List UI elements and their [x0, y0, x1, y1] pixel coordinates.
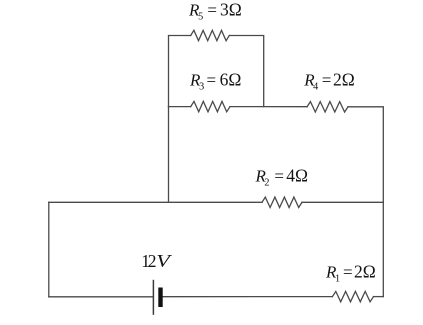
wire left rail down to bottom	[48, 202, 50, 296]
svg-text:R4=2Ω: R4=2Ω	[303, 70, 354, 93]
resistor R3	[191, 101, 230, 111]
resistor R5	[191, 30, 230, 40]
svg-text:R5=3Ω: R5=3Ω	[188, 0, 242, 22]
resistor R4	[307, 102, 348, 112]
wire R4 right lead and right vertical rail	[348, 107, 383, 297]
battery V1 short thick plate	[158, 288, 162, 308]
wire left vertical from R3 node down to R2 wire	[168, 107, 170, 203]
wire R1 right lead to right rail corner	[374, 296, 384, 298]
wire R2 right lead to right rail	[302, 201, 383, 203]
wire top-right of top loop	[229, 36, 263, 107]
svg-text:R2=4Ω: R2=4Ω	[255, 166, 308, 189]
wire battery to R1	[163, 296, 333, 298]
svg-text:R1=2Ω: R1=2Ω	[325, 262, 376, 285]
wire R3 left lead	[169, 106, 191, 108]
wire R2 left lead from left rail	[49, 201, 262, 203]
resistor R2	[262, 197, 302, 207]
resistor R1	[332, 291, 373, 301]
svg-text:12V: 12V	[141, 251, 173, 271]
wire between R3 and R4	[230, 106, 307, 108]
battery V1 long thin plate	[152, 280, 154, 315]
svg-text:R3=6Ω: R3=6Ω	[189, 70, 241, 93]
wire bottom left to battery	[49, 296, 154, 298]
wire top-left horizontal of top loop	[169, 36, 191, 107]
